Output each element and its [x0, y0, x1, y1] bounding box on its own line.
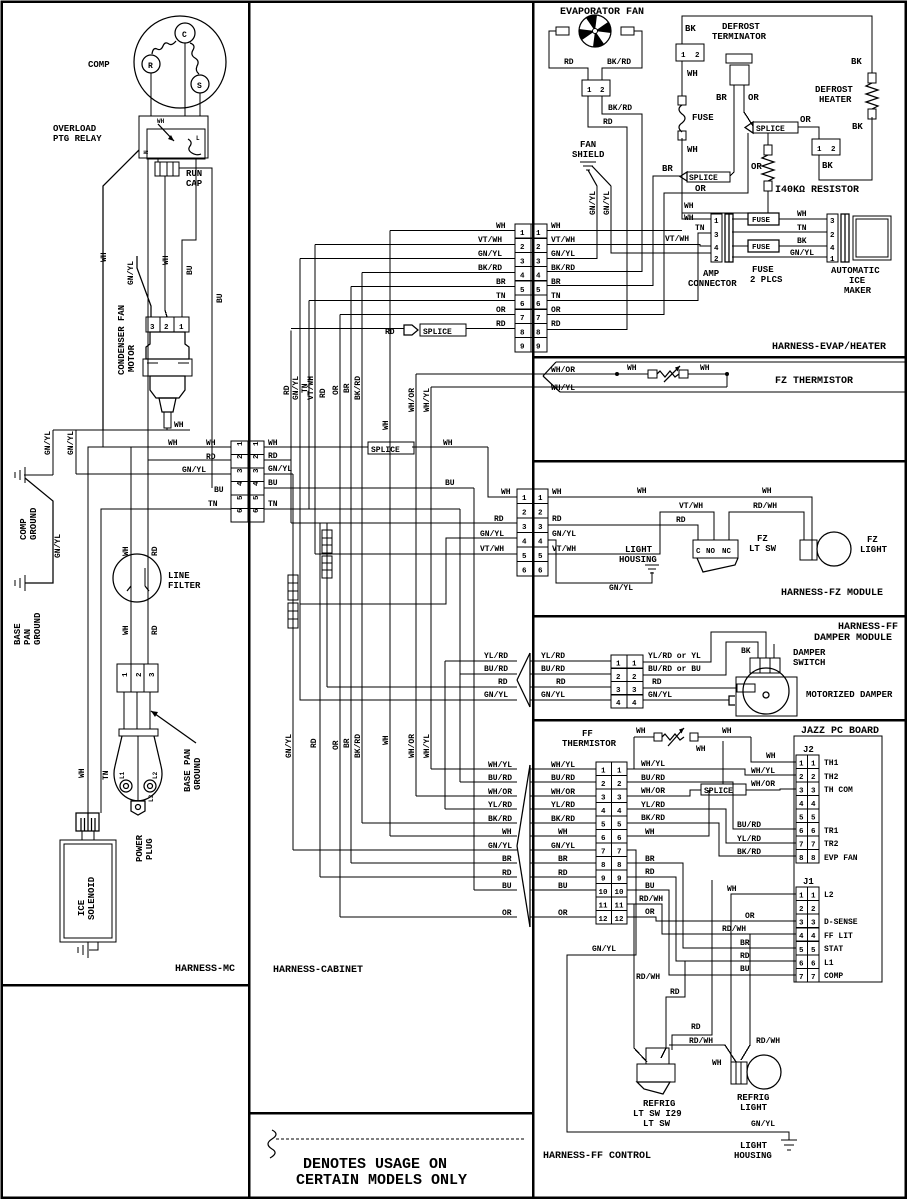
label WH	[766, 752, 776, 761]
wire WH thermistor to J2 pin1	[751, 737, 796, 762]
label RUN CAP	[186, 169, 203, 189]
label RD vertical	[319, 388, 328, 398]
svg-text:TN: TN	[102, 770, 111, 780]
label GN/YL row3 left	[182, 466, 206, 475]
svg-text:BU: BU	[445, 479, 455, 488]
label COMP	[88, 60, 110, 70]
svg-text:1: 1	[681, 52, 686, 60]
label RD vertical	[283, 385, 292, 395]
svg-text:WH: WH	[78, 768, 87, 778]
svg-text:PTG RELAY: PTG RELAY	[53, 134, 102, 144]
label WH/OR vertical	[408, 388, 417, 412]
svg-text:WH: WH	[501, 488, 511, 497]
power plug top bar	[119, 729, 158, 736]
splice ff box	[701, 784, 746, 796]
svg-text:2: 2	[538, 510, 543, 518]
wire YL/RD to FF bundle	[445, 808, 517, 810]
node junction dot	[615, 372, 619, 376]
amp connector hatch bar	[725, 214, 733, 262]
wire RD from pin1	[547, 96, 627, 330]
wire GN/YL to motorized damper	[643, 696, 735, 705]
label BK/RD	[641, 814, 665, 823]
svg-text:BK/RD: BK/RD	[607, 58, 631, 67]
svg-text:GN/YL: GN/YL	[488, 842, 512, 851]
svg-text:WH: WH	[551, 222, 561, 231]
power plug pin L1	[119, 771, 132, 792]
wire GN/YL row	[300, 258, 515, 260]
svg-text:2: 2	[831, 146, 836, 154]
node junction dot	[725, 372, 729, 376]
svg-text:RD: RD	[502, 869, 512, 878]
overload PTC relay inner box	[147, 129, 205, 159]
wire BR row8 to J1 pin5	[627, 863, 796, 948]
svg-text:2: 2	[600, 87, 605, 95]
svg-text:GN/YL: GN/YL	[54, 534, 63, 558]
label TH1	[824, 759, 839, 768]
svg-text:HARNESS-EVAP/HEATER: HARNESS-EVAP/HEATER	[772, 341, 886, 353]
label VT/WH right	[552, 545, 576, 554]
svg-text:WH: WH	[382, 735, 391, 745]
svg-text:2: 2	[616, 674, 621, 682]
wire WH row	[390, 230, 515, 232]
label WH/OR	[551, 788, 575, 797]
svg-text:BR: BR	[558, 855, 568, 864]
label GN/YL vertical	[603, 191, 612, 215]
label RD	[558, 869, 568, 878]
label ICE SOLENOID vertical	[77, 876, 97, 920]
svg-text:3: 3	[811, 920, 816, 928]
svg-text:7: 7	[811, 974, 816, 982]
svg-text:3: 3	[714, 232, 719, 240]
svg-text:6: 6	[536, 301, 541, 309]
wire fan loop right BK/RD	[602, 31, 642, 80]
wire fan loop left RD	[549, 31, 588, 80]
label RD/WH	[753, 502, 777, 511]
svg-text:OR: OR	[551, 306, 561, 315]
label RD	[564, 58, 574, 67]
svg-text:RD: RD	[151, 625, 160, 635]
fuse box upper	[748, 213, 779, 225]
svg-text:ICE: ICE	[77, 899, 87, 916]
label RD	[496, 320, 506, 329]
fan shield symbol	[580, 162, 611, 186]
svg-text:EVP FAN: EVP FAN	[824, 854, 858, 863]
svg-text:RD: RD	[564, 58, 574, 67]
svg-text:WH/OR: WH/OR	[551, 366, 575, 375]
svg-text:2: 2	[695, 52, 700, 60]
svg-text:WH: WH	[502, 828, 512, 837]
svg-text:6: 6	[237, 508, 245, 513]
wire OR terminator leg	[744, 85, 753, 126]
label RD	[502, 869, 512, 878]
svg-text:LT SW: LT SW	[643, 1119, 671, 1129]
label EVAPORATOR FAN	[560, 7, 644, 18]
wire BU relay to motor pin 1	[182, 158, 196, 317]
label TN vertical	[301, 383, 310, 393]
label RD vertical	[310, 738, 319, 748]
wire WH row1 with splice to FZ	[264, 446, 488, 448]
label RD	[652, 678, 662, 687]
label RD row2 left	[206, 453, 216, 462]
label VT/WH	[478, 236, 502, 245]
wire OR row	[340, 314, 515, 316]
label HARNESS-CABINET	[273, 965, 363, 976]
wire BU/RD to damper	[460, 673, 517, 675]
relay coil	[188, 135, 201, 155]
wire BR row	[351, 286, 515, 288]
label WH	[696, 745, 706, 754]
label GN/YL	[648, 691, 672, 700]
label BU	[740, 965, 750, 974]
svg-text:RD: RD	[652, 678, 662, 687]
wire OR bundle to connector	[530, 916, 596, 918]
label VT/WH left	[480, 545, 504, 554]
label DEFROST TERMINATOR	[712, 22, 767, 42]
compressor winding coil C-S	[190, 43, 199, 74]
label BK	[852, 122, 863, 132]
light housing ground symbol	[781, 1140, 797, 1150]
svg-text:GN/YL: GN/YL	[182, 466, 206, 475]
splice 2 box	[745, 122, 798, 134]
svg-text:C: C	[182, 31, 187, 40]
svg-text:DEFROST: DEFROST	[722, 22, 760, 32]
wire BU/RD or BU to damper switch	[643, 642, 758, 675]
svg-text:BK: BK	[797, 237, 807, 246]
svg-text:4: 4	[632, 700, 637, 708]
wire WH row1 to connector	[88, 446, 231, 448]
label YL/RD	[484, 652, 508, 661]
svg-text:GN/YL: GN/YL	[552, 530, 576, 539]
label WH	[645, 828, 655, 837]
label RD/WH	[639, 895, 663, 904]
svg-text:WH: WH	[696, 745, 706, 754]
label BR vertical	[343, 383, 352, 393]
label RD	[740, 952, 750, 961]
svg-text:L1: L1	[824, 959, 834, 968]
svg-text:2: 2	[714, 256, 719, 264]
relay switch arrow	[157, 118, 174, 141]
label BK	[851, 57, 862, 67]
svg-text:7: 7	[617, 849, 622, 857]
svg-text:SOLENOID: SOLENOID	[87, 876, 97, 920]
svg-text:2: 2	[601, 781, 606, 789]
svg-text:BU/RD: BU/RD	[488, 774, 512, 783]
svg-text:RD/WH: RD/WH	[722, 925, 746, 934]
evaporator fan symbol	[579, 15, 611, 47]
wire BU/RD to FF bundle	[460, 781, 517, 783]
svg-text:3: 3	[150, 324, 155, 332]
wire R to relay	[150, 73, 152, 116]
svg-text:8: 8	[799, 855, 804, 863]
label GN/YL vertical	[127, 261, 136, 285]
connector J1	[796, 887, 819, 982]
label GN/YL	[551, 842, 575, 851]
label WH vertical	[382, 735, 391, 745]
svg-text:5: 5	[811, 815, 816, 823]
svg-text:WH/YL: WH/YL	[551, 761, 575, 770]
svg-text:1: 1	[811, 761, 816, 769]
splice 1 box	[680, 172, 730, 183]
label BU	[502, 882, 512, 891]
svg-text:I40KΩ RESISTOR: I40KΩ RESISTOR	[775, 185, 859, 196]
wire GN/YL fan shield 1	[547, 186, 597, 259]
wire GN/YL fan shield 2	[611, 186, 711, 253]
label WH/YL	[551, 761, 575, 770]
wire VT/WH vertical x=315	[314, 245, 316, 555]
svg-text:GROUND: GROUND	[33, 612, 43, 645]
label OR	[496, 306, 506, 315]
svg-text:GN/YL: GN/YL	[592, 945, 616, 954]
label D-SENSE	[824, 918, 858, 927]
svg-text:YL/RD: YL/RD	[641, 801, 665, 810]
svg-text:TN: TN	[208, 500, 218, 509]
wire BK damper switch pin	[773, 644, 775, 658]
svg-text:LIGHT: LIGHT	[860, 545, 888, 555]
section line bottom of harness-cabinet area	[249, 1112, 533, 1115]
svg-text:GN/YL: GN/YL	[551, 250, 575, 259]
wire RD vertical x=327	[326, 523, 328, 687]
svg-text:12: 12	[615, 916, 625, 924]
svg-text:OR: OR	[332, 740, 341, 750]
svg-text:WH/OR: WH/OR	[551, 788, 575, 797]
svg-text:7: 7	[799, 974, 804, 982]
svg-text:RD: RD	[494, 515, 504, 524]
label BK/RD vertical	[354, 734, 363, 758]
svg-text:COMP: COMP	[19, 518, 29, 540]
label LIGHT HOUSING	[619, 545, 657, 565]
label BK	[822, 161, 833, 171]
connector 12-pin ff control	[596, 762, 627, 924]
svg-text:CERTAIN MODELS ONLY: CERTAIN MODELS ONLY	[296, 1172, 467, 1189]
svg-text:1: 1	[830, 256, 835, 264]
wires hatch to solenoid	[82, 831, 94, 840]
svg-text:1: 1	[714, 218, 719, 226]
svg-text:9: 9	[520, 344, 525, 352]
label RD/WH	[689, 1037, 713, 1046]
svg-text:DAMPER MODULE: DAMPER MODULE	[814, 633, 892, 644]
label TN	[551, 292, 561, 301]
svg-text:FUSE: FUSE	[692, 113, 714, 123]
label WH	[637, 487, 647, 496]
label WH/YL	[751, 767, 775, 776]
svg-text:RD: RD	[556, 678, 566, 687]
svg-text:YL/RD: YL/RD	[551, 801, 575, 810]
label DAMPER SWITCH	[793, 648, 826, 668]
label VT/WH vertical	[307, 376, 316, 400]
svg-text:STAT: STAT	[824, 945, 843, 954]
section line top of harness-fz module	[533, 460, 906, 463]
label WH	[700, 364, 710, 373]
label BR	[551, 278, 561, 287]
label BU/RD	[488, 774, 512, 783]
label GN/YL vertical	[44, 431, 53, 455]
wire WH run cap down to motor pin 2	[165, 176, 167, 317]
ff bundle trapezoid	[517, 765, 530, 927]
label EVP FAN	[824, 854, 858, 863]
svg-text:GN/YL: GN/YL	[285, 734, 294, 758]
label STAT	[824, 945, 843, 954]
wire BR into splice1	[547, 176, 680, 286]
svg-text:3: 3	[536, 258, 541, 266]
svg-text:1: 1	[253, 441, 261, 446]
svg-text:4: 4	[237, 481, 245, 486]
label WH	[168, 439, 178, 448]
svg-text:OR: OR	[332, 385, 341, 395]
wire BK amp to fuse lower	[732, 245, 748, 247]
label HARNESS-FZ MODULE	[781, 588, 883, 599]
wire GN/YL vertical x=300	[299, 259, 301, 605]
wire GN/YL down to comp ground	[24, 430, 53, 475]
label GN/YL	[488, 842, 512, 851]
svg-text:1: 1	[616, 661, 621, 669]
svg-text:WH: WH	[766, 752, 776, 761]
label BU/RD	[737, 821, 761, 830]
svg-text:OR: OR	[496, 306, 506, 315]
jazz pc board outline	[794, 736, 882, 982]
wire WH vertical x=488	[487, 447, 489, 497]
svg-text:BU/RD: BU/RD	[484, 665, 508, 674]
label YL/RD	[541, 652, 565, 661]
svg-text:WH: WH	[645, 828, 655, 837]
label WH	[687, 145, 698, 155]
label WH	[636, 727, 646, 736]
svg-text:RD: RD	[691, 1023, 701, 1032]
svg-text:BR: BR	[551, 278, 561, 287]
svg-text:3: 3	[237, 468, 245, 473]
label BR	[558, 855, 568, 864]
label WH/YL vertical	[423, 734, 432, 758]
svg-text:GN/YL: GN/YL	[648, 691, 672, 700]
label OR	[551, 306, 561, 315]
svg-text:1: 1	[237, 441, 245, 446]
svg-text:4: 4	[799, 933, 804, 941]
defrost heater element	[866, 73, 878, 119]
svg-text:8: 8	[617, 862, 622, 870]
label POWER PLUG vertical	[135, 834, 155, 862]
svg-text:GN/YL: GN/YL	[478, 250, 502, 259]
wire BR to FF bundle	[351, 862, 517, 864]
label FUSE 2 PLCS	[750, 265, 783, 285]
label WH	[443, 439, 453, 448]
motorized damper circle	[743, 668, 789, 714]
svg-text:2: 2	[520, 244, 525, 252]
label RD vertical below filter	[151, 625, 160, 635]
wire GN/YL to FF bundle	[293, 849, 517, 851]
svg-text:4: 4	[799, 801, 804, 809]
wire BK/RD row	[362, 272, 515, 274]
wire RD row2	[148, 459, 231, 461]
svg-text:GN/YL: GN/YL	[484, 691, 508, 700]
svg-text:GN/YL: GN/YL	[480, 530, 504, 539]
wire WH to FF bundle	[390, 835, 517, 837]
svg-text:OR: OR	[558, 909, 568, 918]
svg-text:3: 3	[520, 258, 525, 266]
svg-text:YL/RD: YL/RD	[541, 652, 565, 661]
label GN/YL	[484, 691, 508, 700]
wire OR vertical x=340	[339, 315, 341, 918]
svg-text:OVERLOAD: OVERLOAD	[53, 124, 97, 134]
wire RD/WH switch NC to light	[729, 512, 804, 540]
label RD	[556, 678, 566, 687]
svg-text:COMP: COMP	[824, 972, 843, 981]
section line bottom of harness-mc	[2, 984, 250, 987]
wire BU/RD bundle to connector	[530, 781, 596, 783]
wire C to relay	[184, 43, 186, 116]
wire GN/YL row7 to light housing ground	[567, 850, 789, 1140]
svg-text:L2: L2	[824, 891, 834, 900]
svg-text:4: 4	[616, 700, 621, 708]
svg-text:RD: RD	[206, 453, 216, 462]
label GN/YL vertical	[589, 191, 598, 215]
wire BK/RD vertical x=362	[361, 273, 363, 824]
svg-text:BK/RD: BK/RD	[354, 376, 363, 400]
svg-text:3: 3	[799, 788, 804, 796]
svg-text:REFRIG: REFRIG	[737, 1093, 769, 1103]
svg-text:BK: BK	[822, 161, 833, 171]
svg-text:WH/YL: WH/YL	[751, 767, 775, 776]
label WH vertical	[382, 420, 391, 430]
svg-text:FZ THERMISTOR: FZ THERMISTOR	[775, 376, 853, 387]
label YL/RD	[641, 801, 665, 810]
svg-text:BK/RD: BK/RD	[641, 814, 665, 823]
wire thermistor middle leg to splice	[722, 741, 724, 784]
label BK/RD	[551, 264, 575, 273]
svg-text:WH: WH	[558, 828, 568, 837]
label VT/WH	[665, 235, 689, 244]
svg-text:RD: RD	[603, 118, 613, 127]
svg-text:YL/RD or YL: YL/RD or YL	[648, 652, 701, 661]
wire YL/RD vertical x=445	[444, 661, 446, 809]
svg-text:YL/RD: YL/RD	[737, 835, 761, 844]
fan terminal right	[621, 27, 634, 35]
svg-text:BU/RD: BU/RD	[551, 774, 575, 783]
wire TN row	[309, 300, 515, 302]
svg-text:BU/RD or BU: BU/RD or BU	[648, 665, 701, 674]
label FUSE	[692, 113, 714, 123]
svg-text:WH/YL: WH/YL	[551, 384, 575, 393]
label OR	[751, 162, 762, 172]
label BASE PAN GROUND vertical	[13, 612, 43, 645]
label AMP CONNECTOR	[688, 269, 737, 289]
svg-text:CAP: CAP	[186, 179, 203, 189]
svg-text:4: 4	[811, 801, 816, 809]
wire YL/RD bundle to connector	[530, 808, 596, 810]
svg-text:8: 8	[811, 855, 816, 863]
svg-text:BASE: BASE	[13, 623, 23, 645]
svg-text:WH: WH	[700, 364, 710, 373]
svg-text:WH: WH	[722, 727, 732, 736]
140K ohm resistor element	[762, 133, 774, 213]
label OR vertical	[332, 385, 341, 395]
svg-text:WH/YL: WH/YL	[488, 761, 512, 770]
wire RD to FZ row3	[291, 522, 517, 524]
wire WH/YL to FF bundle	[431, 768, 517, 770]
base pan ground symbol	[15, 575, 25, 591]
splice WH	[368, 442, 414, 455]
label BK	[797, 237, 807, 246]
label VT/WH	[679, 502, 703, 511]
compressor winding coil C-R	[152, 41, 176, 54]
label RD/WH	[756, 1037, 780, 1046]
svg-text:WH/OR: WH/OR	[751, 780, 775, 789]
wire BU row10 to J1 pin7	[627, 890, 796, 975]
fz light switch C NO NC	[693, 540, 738, 558]
fz light bulb	[800, 532, 851, 566]
label BU/RD	[551, 774, 575, 783]
label BR	[496, 278, 506, 287]
svg-text:FZ: FZ	[867, 535, 878, 545]
label WH	[762, 487, 772, 496]
